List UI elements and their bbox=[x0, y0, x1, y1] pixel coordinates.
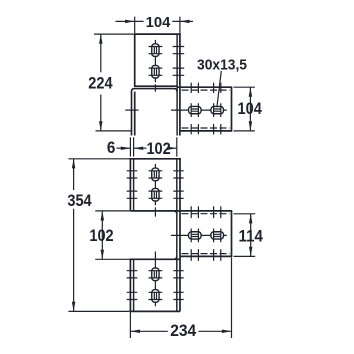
slot P2-A arc ticks bbox=[149, 171, 163, 178]
dim 102 top arrows bbox=[134, 146, 144, 150]
slot F2 centerline bbox=[171, 234, 227, 236]
slot P1 centerline bbox=[154, 40, 156, 92]
slot P1-A oblong 30x13.5 bbox=[152, 44, 159, 57]
part2 right wall outer bbox=[179, 158, 181, 311]
dim 102 left arrows bbox=[101, 211, 105, 221]
part1 channel U outline bbox=[132, 89, 178, 136]
svg-text:104: 104 bbox=[146, 14, 171, 31]
slot F2-B inner lines bbox=[213, 234, 221, 236]
dim 234 arrows bbox=[130, 330, 140, 334]
svg-text:114: 114 bbox=[239, 227, 264, 246]
slot P2-B arc ticks bbox=[149, 191, 163, 198]
slot F1-A arc ticks bbox=[191, 103, 198, 117]
flange2 top edge bend ticks bbox=[191, 206, 221, 218]
part2 recess bottom edge bbox=[134, 258, 180, 260]
dim 102 left extension lines bbox=[95, 211, 133, 259]
dim 114 arrows bbox=[249, 214, 253, 224]
dim 104 right line bbox=[249, 87, 251, 131]
slot P2 centerline bbox=[154, 164, 156, 217]
slot P2-B oblong bbox=[152, 188, 159, 201]
dim 102 top extension line bbox=[176, 137, 178, 156]
slot F1-B arc ticks bbox=[214, 103, 221, 117]
part1 left inner wall lower bbox=[134, 92, 136, 136]
part1 bottom edge bbox=[134, 85, 177, 87]
flange2 bottom inner line bbox=[182, 253, 230, 255]
dim 224 arrows bbox=[99, 34, 103, 44]
part2 bottom edge bbox=[130, 310, 180, 312]
dim 102 left line bbox=[101, 211, 103, 259]
part2 bottom rect left inner bbox=[133, 259, 135, 311]
dim 354 arrows bbox=[72, 159, 76, 169]
dimension texts bbox=[67, 14, 263, 340]
flange1 top inner line bbox=[182, 89, 230, 91]
flange2 bottom edge bbox=[180, 255, 232, 257]
part2 left wall bend ticks lower bbox=[127, 271, 138, 300]
flange1 top edge bbox=[177, 86, 231, 88]
slot F1-A oblong horizontal bbox=[189, 106, 202, 113]
slot F2-A inner lines bbox=[191, 234, 199, 236]
part2 left wall outer upper bbox=[129, 158, 131, 211]
slot P2-C arc ticks bbox=[149, 271, 163, 278]
slot P1-A arc ticks bbox=[149, 47, 163, 54]
part2 right wall bend ticks lower bbox=[173, 271, 183, 300]
slot P1-B arc ticks bbox=[149, 68, 163, 75]
part1 right edge bend ticks bbox=[173, 47, 185, 76]
part2 bottom rect top edge left stub bbox=[130, 258, 134, 260]
part1 left wall centerline mark bbox=[125, 109, 138, 111]
dim 104 top extension lines bbox=[135, 17, 180, 33]
flange2 bottom edge bend ticks bbox=[191, 249, 221, 261]
svg-text:30x13,5: 30x13,5 bbox=[197, 57, 247, 74]
dim 104 top line bbox=[116, 20, 194, 22]
flange2 right edge bbox=[231, 210, 233, 257]
svg-text:6: 6 bbox=[107, 138, 116, 157]
dim 224 line bbox=[100, 34, 102, 131]
dim 6 arrow bbox=[121, 146, 131, 150]
part2 right wall bend ticks upper bbox=[173, 171, 183, 199]
dim 6 extension lines bbox=[130, 137, 133, 156]
part2 recess corner bottom bbox=[174, 256, 177, 259]
slot P1-B oblong bbox=[152, 65, 159, 78]
dimensions bbox=[68, 17, 255, 338]
slot P1-A inner lines bbox=[154, 46, 156, 54]
dim 224 extension lines bbox=[94, 34, 135, 131]
slots bbox=[125, 40, 227, 306]
part2 left wall inner upper bbox=[133, 159, 135, 211]
dim 104 top arrows bbox=[125, 20, 135, 24]
dim 354 extension lines bbox=[68, 159, 129, 312]
part1 top edge bbox=[134, 33, 181, 35]
slot P2-CD centerline bbox=[154, 252, 156, 307]
svg-text:224: 224 bbox=[88, 73, 113, 92]
part1 right inner edge bbox=[176, 34, 178, 135]
part2 top edge bbox=[130, 158, 181, 160]
svg-text:354: 354 bbox=[67, 191, 92, 210]
dim 234 line bbox=[130, 330, 231, 332]
slot P2-C oblong bbox=[152, 268, 159, 281]
slot P1-B inner lines bbox=[154, 68, 156, 76]
leader line 30x13,5 bbox=[217, 71, 221, 107]
dim 114 extension lines bbox=[234, 214, 256, 257]
flange1 bottom edge bbox=[180, 130, 232, 132]
dim 234 extension lines bbox=[130, 258, 231, 339]
slot F1-A inner lines bbox=[191, 109, 199, 111]
dim 6 line bbox=[117, 147, 131, 149]
slot P2-A oblong bbox=[152, 168, 159, 181]
part1 right outer edge bbox=[179, 33, 181, 135]
dim 104 right arrows bbox=[249, 87, 253, 97]
flange1 top edge bend ticks bbox=[191, 83, 221, 93]
part2 right wall inner bbox=[176, 159, 178, 312]
slot P2-D inner lines bbox=[154, 292, 156, 300]
slot P2-D oblong bbox=[152, 290, 159, 303]
flange1 right edge bbox=[231, 86, 233, 131]
dim 114 line bbox=[250, 214, 252, 257]
slot F2-A arc ticks bbox=[191, 229, 198, 243]
slot F1 centerline bbox=[171, 109, 227, 111]
flange2 top inner line bbox=[182, 213, 230, 215]
slot P2-C inner lines bbox=[154, 271, 156, 279]
part2 recess top edge and flange2 top edge bbox=[130, 210, 231, 212]
dim 104 right extension lines bbox=[234, 87, 255, 131]
slot P2-D arc ticks bbox=[149, 292, 163, 299]
svg-text:102: 102 bbox=[146, 139, 170, 158]
flange1 bottom inner line bbox=[182, 127, 230, 129]
svg-text:234: 234 bbox=[170, 321, 197, 340]
slot P2-B inner lines bbox=[154, 191, 156, 199]
part1 left edge upper bbox=[134, 33, 136, 86]
slot F1-B oblong horizontal bbox=[211, 106, 224, 113]
part2 bottom rect left outer bbox=[129, 259, 131, 312]
slot F2-A oblong horizontal bbox=[189, 232, 202, 239]
svg-text:102: 102 bbox=[89, 226, 113, 245]
dim 102 top line bbox=[134, 147, 177, 149]
slot F2-B arc ticks bbox=[214, 229, 221, 243]
svg-text:104: 104 bbox=[238, 99, 263, 118]
part2 recess corner top bbox=[174, 211, 177, 214]
slot F2-B oblong horizontal bbox=[211, 232, 224, 239]
part2 left wall bend ticks upper bbox=[127, 171, 138, 199]
flange1 bottom edge bend ticks bbox=[191, 124, 221, 134]
slot P2-A inner lines bbox=[154, 171, 156, 179]
slot F1-B inner lines bbox=[213, 109, 221, 111]
dim 354 line bbox=[73, 159, 75, 312]
